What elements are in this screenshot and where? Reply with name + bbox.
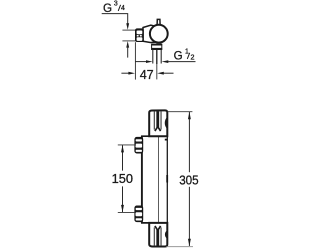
extension line nut top <box>122 29 135 31</box>
body inner contour line <box>158 137 160 222</box>
47 dimension <box>121 72 129 74</box>
305 arrow up <box>188 112 191 120</box>
svg-text:1: 1 <box>185 49 189 56</box>
305 dimension extension line bottom <box>166 246 193 248</box>
arrow up to nut bottom <box>126 41 129 48</box>
svg-text:47: 47 <box>140 68 154 82</box>
305 dimension line <box>188 112 190 172</box>
top union nut (front view) <box>135 137 143 153</box>
150 dimension extension line top <box>118 144 136 146</box>
tail line below up-arrow <box>127 45 129 57</box>
body (plan view) between nut and knob circle <box>143 25 158 42</box>
union nut (plan view) <box>135 29 143 42</box>
leader line for G3/4 <box>102 14 128 26</box>
bottom knob groove <box>154 226 161 246</box>
bottom knob side notch <box>166 231 167 237</box>
305 arrow down <box>188 239 191 247</box>
top knob side notch <box>166 118 168 127</box>
top knob groove <box>154 111 161 131</box>
svg-text:G: G <box>174 49 183 62</box>
outlet flange below circle <box>151 44 162 50</box>
label G1/2 <box>174 49 195 63</box>
bottom knob (volume handle) <box>149 223 167 247</box>
outlet centerline <box>156 50 158 65</box>
svg-text:4: 4 <box>121 5 125 12</box>
body bar <box>141 136 168 223</box>
top knob (temperature handle) <box>149 110 167 136</box>
svg-text:305: 305 <box>179 174 198 188</box>
dark segment on right edge <box>166 175 168 183</box>
wall reference vertical line <box>134 42 136 79</box>
extension line nut bottom <box>122 40 135 42</box>
305 dimension extension line top <box>168 111 193 113</box>
svg-text:150: 150 <box>112 172 133 186</box>
150 arrow up <box>121 145 124 153</box>
stub on top of knob circle <box>157 19 160 24</box>
svg-text:2: 2 <box>191 52 195 61</box>
knob circle (plan view) <box>150 25 168 43</box>
arrow down to nut top <box>126 23 129 30</box>
150 dimension extension line bottom <box>118 211 136 213</box>
svg-text:3: 3 <box>114 1 118 8</box>
svg-text:G: G <box>103 2 112 15</box>
outlet pipe G1/2 <box>152 50 154 64</box>
150 arrow down <box>121 205 124 213</box>
G1/2 dimension left arrow <box>135 61 146 63</box>
G1/2 dimension right arrow <box>162 60 169 63</box>
label G3/4 <box>103 1 125 15</box>
small black tab at right edge <box>165 139 167 141</box>
150 dimension line <box>122 145 124 170</box>
bottom union nut (front view) <box>135 206 143 222</box>
